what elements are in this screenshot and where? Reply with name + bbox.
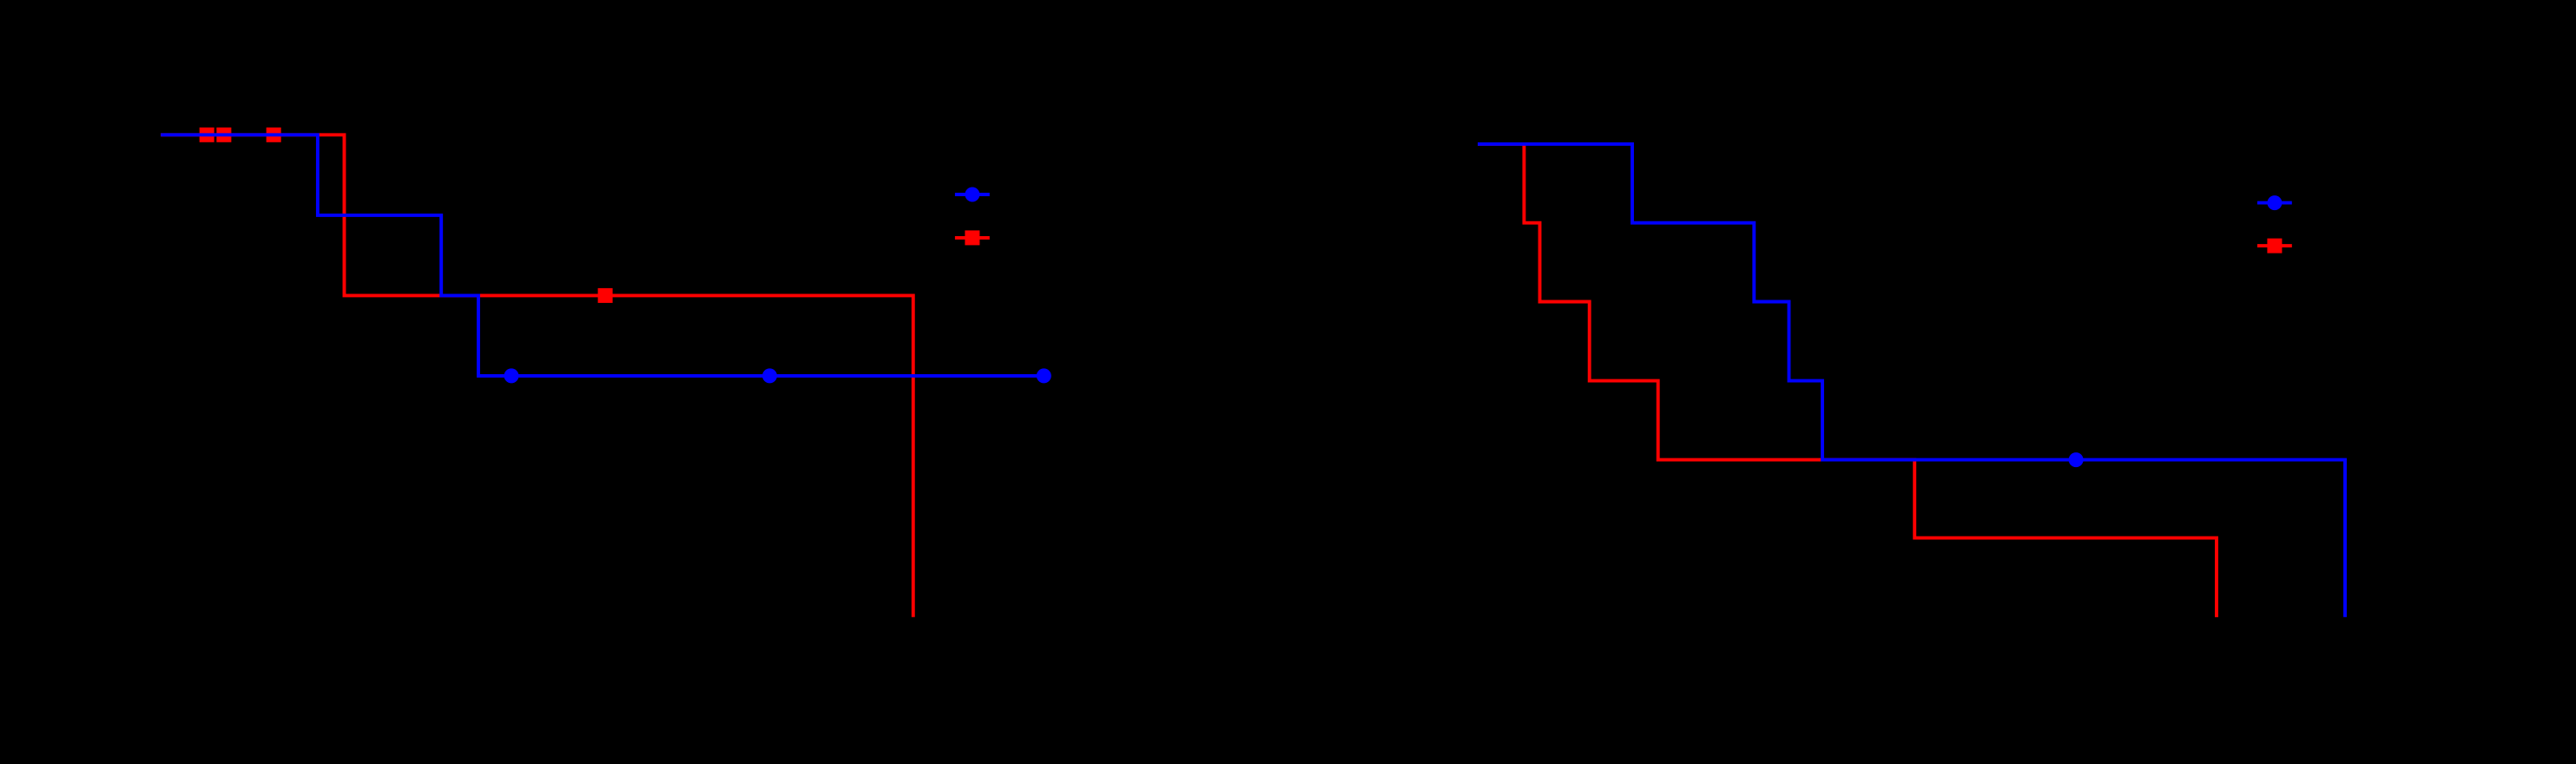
panel 1 legend red entry <box>955 230 990 245</box>
panel 2 red KM curve <box>1478 144 2217 617</box>
panel 1 blue KM curve <box>161 135 1044 376</box>
panel 1 blue censor circle 1 <box>504 368 519 383</box>
panel 1 legend blue entry <box>955 188 990 202</box>
panel 1 red censor square 1 <box>200 128 214 142</box>
panel 1 blue censor circle 3 <box>1037 368 1051 383</box>
panel 2 legend blue entry <box>2257 195 2292 210</box>
panel 2 blue KM curve <box>1478 144 2345 617</box>
panel 1 red censor square 4 <box>598 288 613 303</box>
panel 1 blue censor circle 2 <box>762 368 777 383</box>
panel 2 legend red entry <box>2257 239 2292 254</box>
panel 1 red KM curve <box>161 135 913 616</box>
panel 1 red censor square 3 <box>267 128 281 142</box>
panel 2 blue censor circle <box>2069 452 2084 467</box>
panel 1 red censor square 2 <box>216 128 231 142</box>
